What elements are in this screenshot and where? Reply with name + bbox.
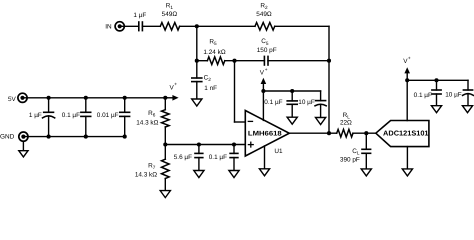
wire [196,61,198,78]
wire [22,141,24,151]
input connector IN [115,22,124,31]
node junction [327,131,331,135]
svg-text:+: + [174,82,177,87]
ground [361,169,371,176]
wire [365,133,367,149]
capacitor 1 uF (supply) [48,98,50,113]
svg-text:0.01 µF: 0.01 µF [97,112,119,119]
node junction [327,59,331,63]
wire [196,26,198,60]
wire [196,82,198,99]
op-amp U1 LMH6618 [245,111,289,157]
ADC U2 ADC121S101 [376,121,429,147]
svg-text:549Ω: 549Ω [256,11,272,18]
resistor R1 [160,23,179,31]
svg-text:549Ω: 549Ω [162,11,178,18]
capacitor C2 [192,77,202,79]
ground [229,171,239,178]
wire ADC ground pin [406,147,408,169]
resistor R5 [207,57,224,65]
op-amp plus sign [248,144,253,146]
node junction [84,96,88,100]
wire op-amp V+ pin [262,91,264,120]
svg-text:R2: R2 [260,2,268,10]
node junction [47,96,51,100]
ground [19,151,28,157]
svg-text:22Ω: 22Ω [340,120,352,127]
resistor R6 [164,98,166,110]
ground [192,99,202,106]
svg-text:R6: R6 [148,110,156,118]
connector GND [19,132,28,141]
wire [225,60,265,62]
capacitor 0.1 uF (ADC supply) [436,80,438,90]
svg-text:0.1 µF: 0.1 µF [209,154,227,161]
wire 5V rail [23,97,168,99]
node junction [197,142,201,146]
wire [275,25,329,27]
svg-text:IN: IN [105,24,112,31]
wire ADC supply rail [407,79,468,81]
svg-text:R5: R5 [209,38,217,46]
node junction [163,96,167,100]
node junction [261,89,265,93]
svg-text:+: + [265,67,268,72]
svg-text:14.3 kΩ: 14.3 kΩ [135,172,157,179]
node junction [405,78,409,82]
capacitor 0.1 uF (supply) [85,98,87,113]
node junction [232,142,236,146]
ground [431,106,441,113]
svg-text:U1: U1 [274,148,283,155]
capacitor 5.6 uF (bypass) [198,145,200,154]
wire [353,132,376,134]
wire GND rail [23,136,124,138]
node junction [364,131,368,135]
svg-text:5.6 µF: 5.6 µF [174,154,192,161]
V+ arrow (ADC supply) [406,72,408,81]
wire [197,60,208,62]
wire [289,132,336,134]
wire [235,121,246,123]
svg-text:GND: GND [0,134,15,141]
ground [194,171,204,178]
capacitor 10 uF (ADC supply) [467,80,469,90]
wire [268,60,329,62]
svg-text:C5: C5 [261,38,269,46]
svg-text:5V: 5V [8,96,17,103]
ground [316,118,326,125]
wire [120,25,139,27]
node junction [434,78,438,82]
V+ arrow (op-amp supply) [262,82,264,91]
ground [160,191,170,198]
resistor R7 [164,145,166,160]
wire op-amp ground pin [264,146,266,169]
svg-text:0.1 µF: 0.1 µF [414,92,432,99]
ground [287,117,297,124]
svg-text:10 µF: 10 µF [298,99,315,106]
svg-text:ADC121S101: ADC121S101 [383,130,429,138]
node junction [290,89,294,93]
ground [259,169,269,176]
resistor R2 [255,23,275,31]
wire [142,25,160,27]
capacitor C5 [263,56,265,65]
capacitor 0.01 uF (supply) [124,98,126,113]
wire ADC V+ pin [406,80,408,120]
capacitor 1 uF (input coupling) [138,22,140,31]
wire [180,25,255,27]
capacitor CL [362,148,371,150]
svg-text:150 pF: 150 pF [257,47,277,54]
svg-text:R7: R7 [148,163,156,171]
V+ arrow (rail) [167,97,174,99]
node junction [123,96,127,100]
svg-text:1.24 kΩ: 1.24 kΩ [203,49,225,56]
wire [365,153,367,169]
svg-text:RL: RL [343,112,351,120]
node junction [232,59,236,63]
capacitor 0.1 uF (op-amp supply) [291,91,293,101]
wire [234,61,236,122]
svg-text:LMH6618: LMH6618 [248,131,282,138]
connector 5V [18,93,27,102]
ground [402,169,412,176]
resistor RL [337,129,353,137]
node junction [195,59,199,63]
wire feedback vertical [328,26,330,133]
wire supply rail [263,90,320,92]
svg-text:390 pF: 390 pF [340,156,360,163]
svg-text:1 µF: 1 µF [29,112,42,119]
svg-text:R1: R1 [166,3,174,11]
svg-text:0.1 µF: 0.1 µF [264,99,282,106]
capacitor 0.1 uF (bypass) [233,145,235,154]
svg-text:CL: CL [352,148,360,156]
svg-text:1 nF: 1 nF [204,85,217,92]
wire node rail [165,144,245,146]
svg-text:+: + [408,55,411,60]
node junction [163,142,167,146]
svg-text:14.3 kΩ: 14.3 kΩ [136,120,158,127]
node junction [195,24,199,28]
capacitor 10 uF (op-amp supply) [320,91,322,101]
ground [462,106,472,113]
svg-text:1 µF: 1 µF [133,12,146,19]
svg-text:10 µF: 10 µF [445,92,462,99]
svg-text:0.1 µF: 0.1 µF [62,112,80,119]
svg-text:C2: C2 [204,75,212,83]
